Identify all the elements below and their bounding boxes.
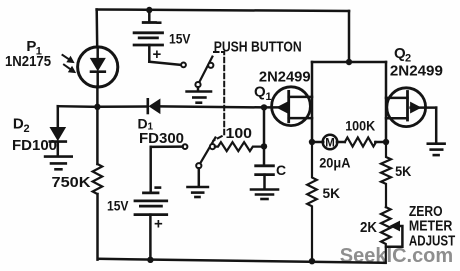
photodiode P1 — [78, 47, 118, 87]
wire input horizontal left — [58, 105, 98, 108]
switch S1b blade — [199, 138, 216, 166]
wire meter to 100K — [337, 141, 345, 144]
node gate dot — [261, 104, 267, 110]
svg-text:+: + — [154, 216, 163, 233]
svg-text:5K: 5K — [395, 163, 411, 179]
ground for S1b — [188, 187, 208, 197]
resistor 5K right — [381, 142, 391, 207]
node 100-C dot — [261, 143, 267, 149]
svg-text:Q: Q — [254, 84, 266, 101]
battery B2 15V bottom — [135, 193, 167, 260]
svg-text:2K: 2K — [360, 220, 377, 236]
meter M 20uA — [323, 135, 338, 150]
wire node A to D1 — [97, 105, 147, 108]
ground for C — [251, 190, 278, 200]
wire top T junction — [348, 11, 351, 62]
wire gate node down to capacitor — [263, 107, 266, 165]
svg-text:1: 1 — [266, 91, 272, 103]
transistor Q1 2N2499 — [264, 87, 312, 126]
node dot battery B1 top — [146, 7, 152, 13]
svg-text:+: + — [153, 46, 162, 63]
svg-text:FD100: FD100 — [12, 137, 57, 154]
wire S1b to ground — [198, 168, 201, 185]
svg-text:5K: 5K — [323, 185, 341, 201]
wire Q2 gate to ground — [435, 108, 438, 144]
dashed mechanical link push button — [213, 52, 224, 141]
ground for S1a — [187, 92, 211, 103]
node dot Q2 source — [383, 139, 389, 145]
svg-text:2N2499: 2N2499 — [259, 69, 311, 86]
node dot T junction — [346, 59, 352, 65]
switch S1b contact — [183, 144, 188, 149]
pot wiper arrow — [386, 221, 402, 246]
resistor 100 ohm — [215, 142, 264, 151]
wire left vertical lower — [96, 194, 99, 260]
svg-text:2N2499: 2N2499 — [390, 62, 443, 79]
svg-text:FD300: FD300 — [139, 130, 184, 147]
light arrows into P1 — [63, 55, 75, 72]
node dot battery B2 bottom — [147, 257, 153, 263]
label minus B2 — [154, 186, 161, 189]
svg-text:750K: 750K — [52, 175, 92, 191]
diode D2 FD100 — [50, 106, 66, 156]
transistor Q2 2N2499 — [386, 88, 436, 127]
node A dot — [94, 104, 100, 110]
svg-text:ADJUST: ADJUST — [409, 234, 455, 250]
wire Q1 right vertical — [311, 62, 314, 142]
svg-text:2: 2 — [24, 123, 30, 135]
svg-text:1N2175: 1N2175 — [5, 54, 51, 70]
ground for Q2 gate — [428, 144, 445, 155]
svg-text:M: M — [325, 137, 335, 149]
ground for D2 — [45, 157, 72, 170]
svg-text:15V: 15V — [107, 198, 129, 214]
node dot Q1 source — [309, 139, 315, 145]
svg-text:PUSH BUTTON: PUSH BUTTON — [214, 38, 302, 55]
potentiometer 2K — [381, 207, 391, 263]
svg-text:METER: METER — [409, 219, 453, 235]
wire D1 to gate node — [160, 106, 264, 107]
wire 100K to Q2 source — [375, 141, 386, 144]
svg-text:100: 100 — [226, 125, 253, 142]
node dot bottom rail — [309, 258, 315, 264]
svg-text:20μA: 20μA — [319, 155, 351, 170]
diode D1 FD300 — [148, 99, 160, 113]
wire S1b contact to battery B2 — [151, 145, 183, 148]
wire S1a to ground — [197, 87, 200, 91]
svg-text:C: C — [276, 162, 286, 178]
wire top rail — [97, 10, 349, 12]
resistor 100K — [345, 138, 376, 147]
svg-text:100K: 100K — [345, 118, 375, 133]
label minus B1 — [156, 21, 161, 24]
resistor 5K left — [307, 142, 317, 261]
wire bottom rail — [98, 259, 386, 263]
switch S1a contact — [181, 63, 186, 68]
resistor 750K — [93, 164, 103, 194]
svg-text:D: D — [13, 116, 24, 133]
wire left vertical upper — [95, 10, 98, 47]
switch S1a blade — [198, 57, 212, 85]
wire Q2 left vertical — [385, 62, 388, 142]
wire left vertical / node A — [96, 87, 99, 165]
wire capacitor to ground — [263, 175, 266, 189]
svg-text:15V: 15V — [169, 31, 191, 47]
battery B1 15V top — [134, 10, 179, 65]
capacitor C — [256, 166, 274, 175]
wire to meter — [312, 141, 323, 144]
